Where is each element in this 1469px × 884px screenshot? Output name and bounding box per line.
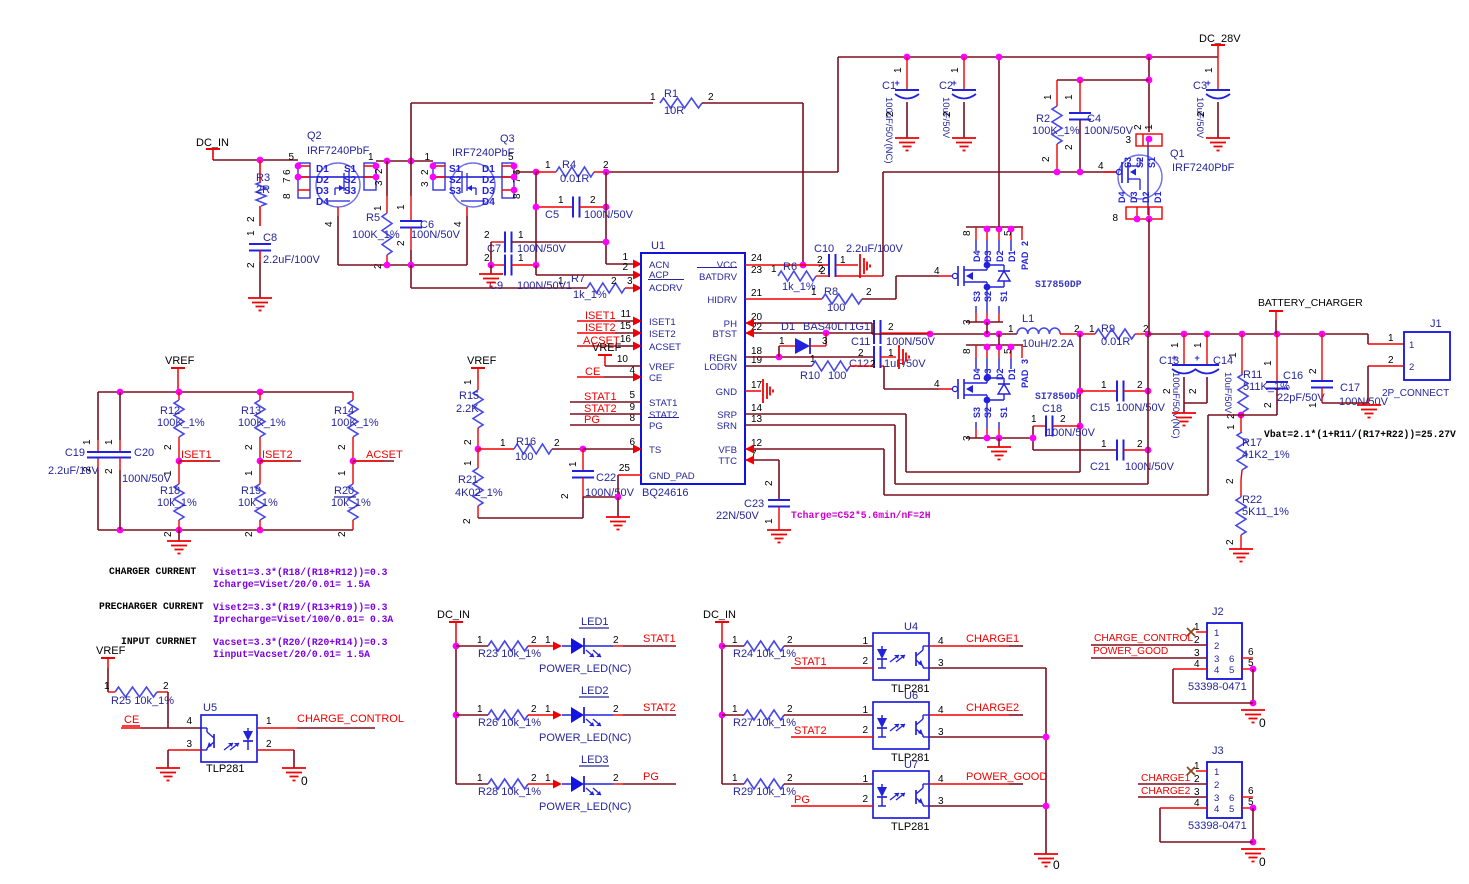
svg-text:2: 2 bbox=[888, 322, 894, 333]
svg-text:4: 4 bbox=[453, 221, 464, 227]
svg-text:C21: C21 bbox=[1090, 461, 1110, 473]
svg-text:GND: GND bbox=[716, 387, 737, 398]
svg-text:1: 1 bbox=[1031, 414, 1037, 425]
wire to J1 pin1 bbox=[1367, 334, 1369, 344]
svg-text:1: 1 bbox=[368, 152, 374, 163]
svg-text:22pF/50V: 22pF/50V bbox=[1277, 392, 1325, 404]
svg-text:Vacset=3.3*(R20/(R20+R14))=0.3: Vacset=3.3*(R20/(R20+R14))=0.3 bbox=[213, 637, 388, 648]
wire C22 to gnd pad bbox=[583, 496, 618, 498]
svg-text:3: 3 bbox=[962, 435, 973, 441]
svg-text:2: 2 bbox=[1162, 388, 1173, 394]
junction opto out3 bbox=[1043, 803, 1050, 810]
resistor R2 bbox=[1056, 80, 1058, 106]
svg-text:1: 1 bbox=[163, 470, 174, 476]
svg-text:100: 100 bbox=[515, 451, 533, 463]
wire TS to chip bbox=[583, 448, 633, 450]
svg-text:D1: D1 bbox=[781, 321, 795, 333]
svg-text:R23 10k_1%: R23 10k_1% bbox=[478, 648, 541, 660]
svg-text:2: 2 bbox=[942, 111, 953, 117]
svg-text:1: 1 bbox=[518, 253, 524, 264]
capacitor C17 bbox=[1321, 334, 1323, 381]
svg-text:100N/50V1: 100N/50V1 bbox=[517, 280, 572, 292]
transistor Q3 left pin bracket bbox=[433, 163, 445, 190]
svg-text:3: 3 bbox=[1125, 135, 1131, 146]
resistor R13 bbox=[259, 392, 261, 400]
svg-text:2: 2 bbox=[531, 773, 537, 784]
svg-text:1: 1 bbox=[104, 439, 115, 445]
transistor Q2 gate lead bbox=[337, 207, 339, 216]
svg-text:1: 1 bbox=[477, 704, 483, 715]
wire upper fet source to node bbox=[986, 322, 988, 334]
svg-text:10k_1%: 10k_1% bbox=[238, 497, 278, 509]
ground under divider bbox=[178, 530, 180, 541]
svg-text:R6: R6 bbox=[783, 261, 797, 273]
junction C18 right bbox=[1077, 423, 1084, 430]
junction R11 bbox=[1239, 331, 1246, 338]
svg-text:10uF/50V: 10uF/50V bbox=[1222, 372, 1233, 414]
svg-text:2.2uF/100V: 2.2uF/100V bbox=[846, 243, 904, 255]
capacitor C1 bbox=[906, 57, 908, 90]
svg-text:1: 1 bbox=[477, 773, 483, 784]
junction C17 bbox=[1319, 331, 1326, 338]
svg-text:IRF7240PbF: IRF7240PbF bbox=[307, 145, 370, 157]
svg-text:R15: R15 bbox=[459, 390, 479, 402]
svg-text:C5: C5 bbox=[545, 209, 559, 221]
svg-text:2: 2 bbox=[862, 725, 868, 736]
junction TS C22 bbox=[580, 446, 587, 453]
svg-text:100N/50V: 100N/50V bbox=[886, 336, 936, 348]
svg-text:R18: R18 bbox=[160, 485, 180, 497]
svg-text:VFB: VFB bbox=[718, 445, 737, 456]
svg-text:D1: D1 bbox=[316, 164, 329, 175]
svg-text:2: 2 bbox=[531, 635, 537, 646]
wire to ACP bbox=[535, 265, 537, 275]
svg-text:53398-0471: 53398-0471 bbox=[1188, 820, 1247, 832]
svg-text:53398-0471: 53398-0471 bbox=[1188, 681, 1247, 693]
svg-text:S3: S3 bbox=[1123, 157, 1133, 168]
ground U5 pin2 bbox=[282, 767, 306, 769]
ground under C8 bbox=[248, 297, 272, 299]
junction upper fet bottom bbox=[984, 319, 991, 326]
svg-text:2: 2 bbox=[866, 287, 872, 298]
wire rail left vertical bbox=[837, 57, 839, 172]
junction C9 right bbox=[533, 262, 540, 269]
wire Q2 gate down bbox=[337, 216, 339, 265]
svg-text:2P_CONNECT: 2P_CONNECT bbox=[1382, 388, 1449, 399]
svg-text:S2: S2 bbox=[983, 407, 993, 418]
wire top rail bbox=[838, 56, 1218, 58]
svg-text:1: 1 bbox=[811, 287, 817, 298]
junction R19 bottom bbox=[257, 527, 264, 534]
svg-text:24: 24 bbox=[751, 253, 763, 264]
svg-text:2: 2 bbox=[590, 195, 596, 206]
svg-text:BATTERY_CHARGER: BATTERY_CHARGER bbox=[1258, 298, 1363, 309]
svg-text:3: 3 bbox=[374, 180, 385, 186]
junction C13 bbox=[1181, 331, 1188, 338]
svg-text:POWER_LED(NC): POWER_LED(NC) bbox=[539, 801, 631, 813]
svg-text:1: 1 bbox=[477, 635, 483, 646]
svg-text:100uF/50V(NC): 100uF/50V(NC) bbox=[883, 97, 894, 164]
resistor R15 bbox=[477, 380, 479, 390]
wire gate row Q1 bbox=[883, 171, 1116, 173]
svg-text:Iinput=Vacset/20/0.01= 1.5A: Iinput=Vacset/20/0.01= 1.5A bbox=[213, 649, 370, 660]
svg-text:1: 1 bbox=[337, 470, 348, 476]
svg-text:C1: C1 bbox=[882, 80, 896, 92]
svg-text:1: 1 bbox=[1228, 352, 1239, 358]
wire C18 to fet source bbox=[1032, 426, 1034, 450]
svg-text:2: 2 bbox=[885, 111, 896, 117]
svg-text:1: 1 bbox=[950, 67, 961, 73]
svg-text:C4: C4 bbox=[1087, 113, 1101, 125]
wire Q3 gate down bbox=[466, 216, 468, 265]
wire switch node bbox=[872, 333, 1017, 335]
svg-text:1: 1 bbox=[1388, 333, 1394, 344]
svg-text:S3: S3 bbox=[972, 291, 982, 302]
svg-text:C13: C13 bbox=[1159, 355, 1179, 367]
svg-text:1: 1 bbox=[82, 439, 93, 445]
svg-text:C8: C8 bbox=[263, 232, 277, 244]
resistor R8 bbox=[745, 298, 822, 300]
junction C2 top bbox=[961, 54, 968, 61]
svg-text:6: 6 bbox=[1229, 654, 1234, 665]
svg-text:R14: R14 bbox=[334, 405, 354, 417]
svg-text:STAT1: STAT1 bbox=[649, 398, 677, 409]
underline R20 bbox=[334, 496, 356, 498]
junction R12 top bbox=[176, 389, 183, 396]
junction fet drain top bbox=[996, 54, 1003, 61]
svg-text:1: 1 bbox=[1101, 439, 1107, 450]
svg-text:100N/50V: 100N/50V bbox=[1125, 461, 1175, 473]
svg-text:C12: C12 bbox=[849, 358, 869, 370]
ground at GND pin bbox=[745, 390, 761, 392]
svg-text:R12: R12 bbox=[160, 405, 180, 417]
svg-text:S2: S2 bbox=[1135, 157, 1145, 168]
svg-text:J1: J1 bbox=[1430, 318, 1442, 330]
svg-text:1: 1 bbox=[104, 681, 110, 692]
svg-text:8: 8 bbox=[962, 348, 973, 354]
junction C5 left bbox=[533, 204, 540, 211]
svg-text:D4: D4 bbox=[972, 368, 982, 380]
svg-text:1: 1 bbox=[266, 716, 272, 727]
svg-text:2: 2 bbox=[1225, 539, 1236, 545]
junction led row1 bbox=[453, 643, 460, 650]
svg-text:2: 2 bbox=[246, 262, 257, 268]
svg-text:D3: D3 bbox=[983, 250, 993, 262]
svg-text:STAT1: STAT1 bbox=[643, 633, 676, 645]
resistor R10 bbox=[745, 365, 812, 367]
wire led column bbox=[455, 646, 457, 784]
junction lower fet source a bbox=[984, 435, 991, 442]
svg-text:R22: R22 bbox=[1242, 494, 1262, 506]
svg-text:6: 6 bbox=[282, 169, 293, 175]
capacitor C16 bbox=[1276, 334, 1278, 382]
svg-text:Tcharge=C52*5.6min/nF=2H: Tcharge=C52*5.6min/nF=2H bbox=[791, 510, 931, 521]
svg-text:POWER_LED(NC): POWER_LED(NC) bbox=[539, 732, 631, 744]
svg-text:CE: CE bbox=[649, 373, 662, 384]
resistor R1 bbox=[411, 102, 653, 104]
wire ACDRV row bbox=[411, 287, 587, 289]
svg-text:STAT2: STAT2 bbox=[794, 725, 827, 737]
resistor R11 bbox=[1241, 334, 1243, 374]
capacitor C3 bbox=[1217, 57, 1219, 90]
svg-text:D1: D1 bbox=[482, 164, 495, 175]
capacitor C15 bbox=[1080, 390, 1117, 392]
svg-text:4: 4 bbox=[186, 716, 192, 727]
ground under lower fet bbox=[998, 438, 1000, 447]
svg-text:PG: PG bbox=[794, 794, 810, 806]
svg-text:2: 2 bbox=[858, 348, 864, 359]
svg-text:D4: D4 bbox=[1117, 191, 1127, 203]
svg-text:IRF7240PbF: IRF7240PbF bbox=[1172, 162, 1235, 174]
wire gates row bbox=[338, 264, 467, 266]
svg-text:1: 1 bbox=[862, 705, 868, 716]
transistor Q3 body bbox=[451, 163, 495, 207]
wire lower fet drain to node bbox=[998, 334, 1000, 345]
svg-text:1k_1%: 1k_1% bbox=[573, 289, 607, 301]
svg-text:BATDRV: BATDRV bbox=[699, 272, 738, 283]
svg-text:S3: S3 bbox=[972, 407, 982, 418]
junction C15 left bbox=[1077, 388, 1084, 395]
junction opto row2 bbox=[719, 712, 726, 719]
wire vref left col bbox=[97, 392, 99, 440]
svg-text:1: 1 bbox=[545, 773, 551, 784]
svg-text:3: 3 bbox=[627, 276, 633, 287]
svg-text:2: 2 bbox=[1409, 362, 1414, 373]
svg-text:U1: U1 bbox=[651, 240, 665, 252]
svg-text:2: 2 bbox=[1196, 111, 1207, 117]
wire sense column left bbox=[535, 172, 537, 265]
ground U5 pin3 bbox=[156, 767, 180, 769]
svg-text:1: 1 bbox=[1193, 342, 1204, 348]
svg-text:1: 1 bbox=[545, 160, 551, 171]
svg-text:VREF: VREF bbox=[592, 342, 622, 354]
junction D1 cathode bbox=[823, 330, 830, 337]
svg-text:ACSET: ACSET bbox=[366, 449, 403, 461]
svg-text:+: + bbox=[1195, 353, 1200, 363]
junction ACSET bbox=[350, 458, 357, 465]
svg-text:2: 2 bbox=[1388, 355, 1394, 366]
wire VFB bbox=[745, 448, 884, 450]
transistor Q2 body bbox=[316, 163, 360, 207]
svg-text:SRP: SRP bbox=[717, 410, 737, 421]
svg-text:TS: TS bbox=[649, 445, 661, 456]
svg-text:PG: PG bbox=[643, 771, 659, 783]
junction gnd pad bbox=[615, 494, 622, 501]
transistor Q3 right pin bracket bbox=[502, 163, 514, 198]
svg-text:1: 1 bbox=[862, 636, 868, 647]
svg-text:2.2uF/100V: 2.2uF/100V bbox=[263, 254, 321, 266]
transistor Q1 top bracket bbox=[1136, 134, 1162, 146]
junction R2 bottom bbox=[1054, 169, 1061, 176]
junction C14 bbox=[1204, 331, 1211, 338]
svg-text:L1: L1 bbox=[1022, 313, 1034, 325]
svg-text:2: 2 bbox=[1137, 439, 1143, 450]
svg-text:2: 2 bbox=[1020, 241, 1030, 246]
svg-text:Viset1=3.3*(R18/(R18+R12))=0.3: Viset1=3.3*(R18/(R18+R12))=0.3 bbox=[213, 567, 388, 578]
svg-text:1: 1 bbox=[1101, 380, 1107, 391]
svg-text:2: 2 bbox=[818, 264, 824, 275]
wire sense column x1080 bbox=[1079, 334, 1081, 472]
svg-text:1: 1 bbox=[373, 205, 384, 211]
svg-text:2: 2 bbox=[764, 480, 775, 486]
svg-text:TLP281: TLP281 bbox=[891, 821, 930, 833]
junction R13 top bbox=[257, 389, 264, 396]
svg-text:C17: C17 bbox=[1340, 382, 1360, 394]
svg-text:D2: D2 bbox=[1141, 191, 1151, 203]
svg-text:2: 2 bbox=[613, 704, 619, 715]
opto U5 bbox=[201, 715, 257, 762]
svg-text:0.01R: 0.01R bbox=[560, 173, 589, 185]
svg-text:S3: S3 bbox=[449, 186, 462, 197]
svg-text:C18: C18 bbox=[1042, 403, 1062, 415]
transistor Q3 gate lead bbox=[466, 207, 468, 216]
svg-text:1: 1 bbox=[244, 470, 255, 476]
wire C7 to C9 left bbox=[490, 242, 492, 265]
wire vref top rail bbox=[98, 391, 353, 393]
connector J1 bbox=[1404, 332, 1450, 380]
wire U5 pin3 bbox=[168, 749, 201, 751]
opto U6 row bbox=[722, 714, 744, 716]
ground opto outputs bbox=[1034, 853, 1058, 855]
led LED2 row bbox=[456, 714, 488, 716]
svg-text:R10: R10 bbox=[800, 370, 820, 382]
svg-text:R17: R17 bbox=[1242, 437, 1262, 449]
svg-text:R24 10k_1%: R24 10k_1% bbox=[733, 648, 796, 660]
svg-text:CHARGE1: CHARGE1 bbox=[1141, 773, 1191, 784]
junction C16 bbox=[1274, 331, 1281, 338]
svg-text:1: 1 bbox=[1308, 402, 1319, 408]
svg-text:2: 2 bbox=[1137, 380, 1143, 391]
svg-text:100K_1%: 100K_1% bbox=[238, 417, 286, 429]
svg-text:1: 1 bbox=[1204, 67, 1215, 73]
svg-text:D4: D4 bbox=[972, 250, 982, 262]
svg-text:1: 1 bbox=[732, 635, 738, 646]
svg-text:BQ24616: BQ24616 bbox=[642, 487, 688, 499]
svg-text:D3: D3 bbox=[316, 186, 329, 197]
pin arrow ACN bbox=[633, 260, 642, 269]
svg-text:3: 3 bbox=[186, 739, 192, 750]
svg-text:17: 17 bbox=[751, 380, 763, 391]
capacitor C21 bbox=[1033, 449, 1117, 451]
junction C1 top bbox=[904, 54, 911, 61]
svg-text:6: 6 bbox=[1248, 647, 1254, 658]
transistor Q2 left pin bracket bbox=[298, 163, 310, 198]
svg-text:D2: D2 bbox=[482, 175, 495, 186]
svg-text:2: 2 bbox=[1263, 402, 1274, 408]
svg-text:22N/50V: 22N/50V bbox=[716, 510, 759, 522]
svg-text:2: 2 bbox=[163, 444, 174, 450]
svg-text:100K_1%: 100K_1% bbox=[157, 417, 205, 429]
capacitor C9 bbox=[491, 264, 505, 266]
resistor R12 bbox=[178, 392, 180, 400]
svg-text:VCC: VCC bbox=[717, 260, 737, 271]
svg-text:2: 2 bbox=[337, 444, 348, 450]
svg-text:9: 9 bbox=[629, 402, 635, 413]
op-amp U1 outline bbox=[641, 253, 745, 484]
svg-text:S1: S1 bbox=[344, 164, 357, 175]
capacitor C2 bbox=[963, 57, 965, 90]
svg-text:SI7850DP: SI7850DP bbox=[1035, 391, 1082, 402]
svg-text:DC_IN: DC_IN bbox=[196, 137, 229, 149]
svg-text:1: 1 bbox=[732, 704, 738, 715]
svg-text:VREF: VREF bbox=[649, 362, 675, 373]
junction R11 bottom bbox=[1238, 412, 1245, 419]
wire opto output column bbox=[1045, 668, 1047, 854]
transistor Q1 bottom bracket bbox=[1126, 207, 1162, 219]
svg-text:5K11_1%: 5K11_1% bbox=[1242, 506, 1289, 518]
svg-text:DC_IN: DC_IN bbox=[703, 609, 736, 621]
wire Q1 column top bbox=[1148, 57, 1150, 132]
svg-text:S3: S3 bbox=[344, 186, 357, 197]
svg-text:8: 8 bbox=[1112, 213, 1118, 224]
svg-text:VREF: VREF bbox=[467, 355, 497, 367]
junction C4 top bbox=[1077, 77, 1084, 84]
svg-text:1: 1 bbox=[500, 438, 506, 449]
junction opto out2 bbox=[1043, 734, 1050, 741]
svg-text:PAD: PAD bbox=[1020, 251, 1030, 270]
svg-text:10: 10 bbox=[617, 354, 629, 365]
junction R4/C5 column bbox=[603, 169, 610, 176]
resistor R21 bbox=[477, 449, 479, 468]
svg-text:3: 3 bbox=[822, 336, 828, 347]
svg-text:100uF/50V(NC): 100uF/50V(NC) bbox=[1170, 372, 1181, 439]
svg-text:0: 0 bbox=[1259, 855, 1266, 869]
junction C18 fet bbox=[1030, 435, 1037, 442]
svg-text:C16: C16 bbox=[1283, 370, 1303, 382]
svg-text:R27 10k_1%: R27 10k_1% bbox=[733, 717, 796, 729]
svg-text:10k_1%: 10k_1% bbox=[157, 497, 197, 509]
wire R1 left vertical bbox=[410, 103, 412, 161]
svg-text:3: 3 bbox=[1214, 793, 1219, 804]
svg-text:5: 5 bbox=[508, 152, 514, 163]
wire to ACN bbox=[606, 263, 633, 265]
svg-text:11: 11 bbox=[621, 309, 632, 320]
svg-text:10R: 10R bbox=[664, 105, 684, 117]
svg-text:8: 8 bbox=[962, 230, 973, 236]
svg-text:2: 2 bbox=[554, 438, 560, 449]
svg-text:2: 2 bbox=[613, 773, 619, 784]
svg-text:4K02_1%: 4K02_1% bbox=[455, 487, 503, 499]
svg-text:2: 2 bbox=[870, 359, 876, 370]
svg-text:LED3: LED3 bbox=[581, 754, 609, 766]
svg-text:R13: R13 bbox=[241, 405, 261, 417]
junction TS left bbox=[475, 446, 482, 453]
svg-text:D2: D2 bbox=[995, 250, 1005, 262]
svg-text:1: 1 bbox=[1089, 324, 1095, 335]
capacitor C22 bbox=[582, 449, 584, 471]
ground under C9 bbox=[490, 265, 492, 274]
svg-text:10k_1%: 10k_1% bbox=[331, 497, 371, 509]
svg-text:1: 1 bbox=[424, 152, 430, 163]
svg-text:4: 4 bbox=[934, 266, 940, 277]
junction led row2 bbox=[453, 712, 460, 719]
svg-text:S1: S1 bbox=[1147, 157, 1157, 168]
transistor pair upper SI7850DP bbox=[966, 226, 1023, 228]
svg-text:1: 1 bbox=[1214, 628, 1219, 639]
svg-text:S2: S2 bbox=[983, 291, 993, 302]
svg-text:2: 2 bbox=[1064, 144, 1075, 150]
svg-text:2: 2 bbox=[1225, 478, 1236, 484]
wire Q3 drain to node bbox=[514, 171, 536, 173]
svg-text:2: 2 bbox=[862, 656, 868, 667]
capacitor C13 bbox=[1183, 334, 1185, 364]
wire L1 to R9 bbox=[1060, 333, 1095, 335]
ground under C2 bbox=[952, 137, 976, 139]
wire C5 column bbox=[605, 172, 607, 264]
svg-text:2R: 2R bbox=[256, 184, 270, 196]
capacitor C5 bbox=[536, 206, 573, 208]
svg-text:6: 6 bbox=[1248, 786, 1254, 797]
